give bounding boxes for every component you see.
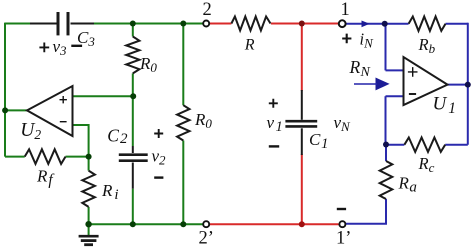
svg-text:1’: 1’ (336, 229, 351, 247)
svg-text:1: 1 (341, 0, 350, 20)
svg-text:2’: 2’ (199, 229, 214, 247)
svg-text:2: 2 (203, 0, 212, 20)
svg-text:R: R (244, 37, 255, 54)
